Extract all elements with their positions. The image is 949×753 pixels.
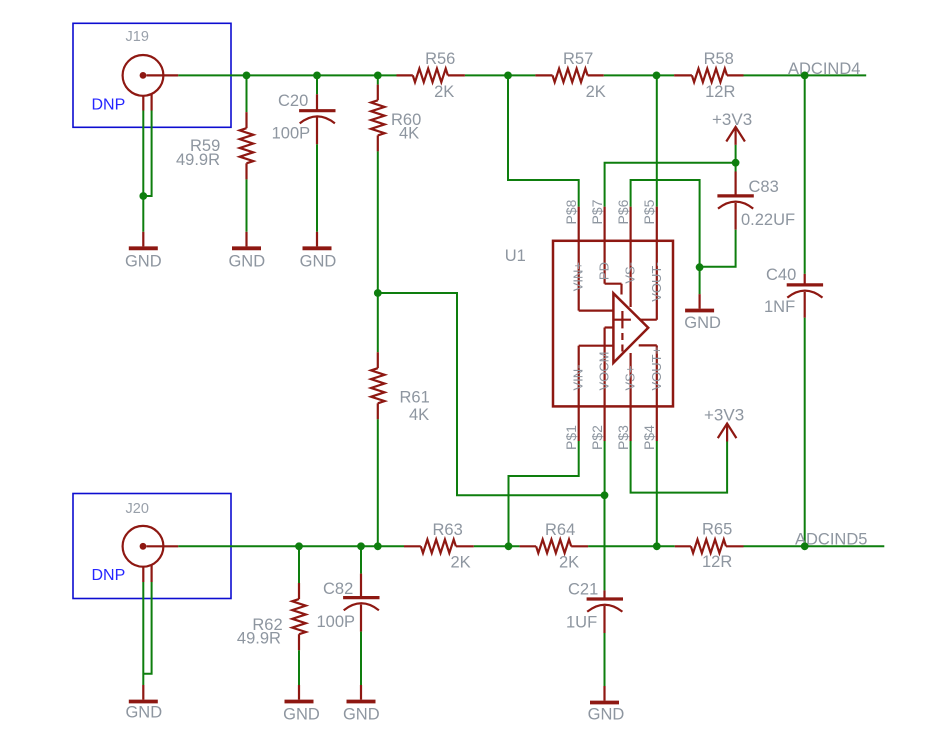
resistor R59: [240, 112, 254, 179]
wire R61 to bottom net: [377, 419, 379, 546]
junction ADCIND4 node: [801, 72, 809, 80]
U1 internal VOUT+ line: [639, 345, 657, 406]
U1 internal VOUT- line: [640, 241, 657, 320]
label R63 value 2K: [451, 554, 471, 572]
pin label P$1: [563, 425, 579, 450]
pin P$8 stub: [578, 207, 580, 241]
wire node R63/R64 to pin P$1: [509, 441, 579, 546]
junction C20 tap: [313, 72, 321, 80]
pin name VIN-: [571, 365, 586, 391]
U1 plus sign: [614, 311, 631, 328]
wire C82 to GND: [360, 632, 362, 685]
wire R60 to divider node: [377, 151, 379, 293]
svg-text:DNP: DNP: [92, 567, 126, 584]
pin P$1 stub: [578, 406, 580, 441]
pin label P$5: [641, 199, 657, 224]
junction divider node: [374, 289, 382, 297]
svg-text:GND: GND: [125, 253, 162, 271]
wire J20 shield to ground: [143, 582, 151, 674]
svg-text:GND: GND: [588, 706, 625, 724]
svg-text:0.22UF: 0.22UF: [741, 211, 795, 229]
label R62 value 49.9R: [237, 630, 281, 648]
svg-text:P$6: P$6: [615, 199, 631, 224]
svg-text:P$2: P$2: [589, 425, 605, 450]
wire top net segment 2: [465, 74, 536, 76]
label net ADCIND4: [788, 60, 860, 78]
svg-text:12R: 12R: [702, 553, 732, 571]
svg-text:1UF: 1UF: [566, 614, 597, 632]
svg-text:GND: GND: [684, 314, 721, 332]
svg-text:49.9R: 49.9R: [237, 630, 281, 648]
wire +3V3 to node: [735, 145, 737, 163]
pin label P$6: [615, 199, 631, 224]
wire R62 top lead: [298, 546, 300, 583]
capacitor C82: [343, 574, 379, 632]
svg-text:R61: R61: [400, 389, 430, 407]
connector J20 BNC symbol: [123, 526, 179, 582]
supply +3V3 (bottom): [704, 406, 744, 442]
junction bottom node A: [505, 542, 513, 550]
svg-text:PD: PD: [597, 262, 612, 280]
pin label P$3: [615, 425, 631, 450]
U1 internal VS+ line: [629, 353, 631, 406]
capacitor C20: [299, 94, 335, 144]
wire R62 to GND: [298, 650, 300, 685]
wire C40 to bottom net: [804, 318, 806, 547]
label C20 name: [278, 92, 308, 110]
svg-text:VIN-: VIN-: [571, 365, 586, 391]
svg-text:49.9R: 49.9R: [176, 151, 220, 169]
label R65 value 12R: [702, 553, 732, 571]
svg-text:+3V3: +3V3: [704, 406, 744, 425]
pin label P$7: [589, 199, 605, 224]
op-amp U1 body: [553, 241, 673, 407]
wire R59 top lead: [246, 75, 248, 112]
resistor R56: [397, 69, 465, 83]
wire pin P$2 to VOCM node: [604, 441, 606, 495]
pin name VOUT+: [649, 347, 664, 391]
svg-text:GND: GND: [300, 253, 337, 271]
connector J20 DNP label: [92, 567, 126, 584]
svg-text:GND: GND: [283, 706, 320, 724]
pin P$5 stub: [656, 207, 658, 241]
svg-text:100P: 100P: [317, 613, 356, 631]
svg-text:R57: R57: [563, 50, 593, 68]
wire J19 node to GND: [142, 196, 144, 232]
connector J19 DNP label: [92, 97, 126, 114]
U1 internal VIN- line: [579, 346, 614, 407]
resistor R63: [404, 540, 474, 554]
ground GND (C20): [300, 232, 337, 271]
svg-text:C20: C20: [278, 92, 308, 110]
connector J19 frame: [73, 23, 231, 127]
resistor R65: [675, 540, 744, 554]
pin label P$2: [589, 425, 605, 450]
U1 amplifier triangle: [613, 293, 648, 363]
wire divider to VOCM node: [378, 293, 605, 495]
wire J20 pin down: [142, 582, 144, 685]
svg-text:P$5: P$5: [641, 199, 657, 224]
wire C83 to ground node: [700, 230, 736, 267]
wire bottom net segment 4: [744, 545, 885, 547]
svg-text:ADCIND4: ADCIND4: [788, 60, 860, 78]
label R57 value 2K: [586, 83, 606, 101]
U1 internal VIN+ line: [579, 241, 614, 311]
svg-text:100P: 100P: [272, 125, 311, 143]
label C83 value 0.22UF: [741, 211, 795, 229]
pin name PD: [597, 262, 612, 280]
pin name VS-: [623, 262, 638, 284]
wire C20 top lead: [316, 75, 318, 94]
label C82 value 100P: [317, 613, 356, 631]
junction J19 ground node: [139, 192, 147, 200]
svg-text:J20: J20: [126, 501, 149, 517]
pin P$3 stub: [629, 406, 631, 441]
svg-text:2K: 2K: [434, 83, 454, 101]
connector J20 name label: [126, 501, 149, 517]
svg-text:P$4: P$4: [641, 425, 657, 450]
wire pin P$6 route: [631, 180, 700, 267]
wire bottom net segment 1: [178, 545, 404, 547]
pin P$4 stub: [656, 406, 658, 441]
label C20 value 100P: [272, 125, 311, 143]
svg-text:GND: GND: [125, 704, 162, 722]
label R56 value 2K: [434, 83, 454, 101]
svg-text:2K: 2K: [559, 554, 579, 572]
resistor R60: [371, 85, 385, 152]
pin name VS+: [623, 366, 638, 391]
label net ADCIND5: [795, 531, 867, 549]
supply +3V3 (top): [712, 110, 752, 145]
wire bottom net segment 2: [474, 545, 520, 547]
pin P$7 stub: [603, 207, 605, 241]
svg-text:J19: J19: [126, 29, 149, 45]
svg-text:R65: R65: [702, 521, 732, 539]
label R59 value 49.9R: [176, 151, 220, 169]
svg-text:U1: U1: [505, 247, 526, 265]
junction VOCM node: [601, 491, 609, 499]
label R63 name: [433, 521, 463, 539]
svg-text:R56: R56: [425, 50, 455, 68]
label R59 name: [190, 137, 220, 155]
label C40 value 1NF: [764, 298, 795, 316]
svg-text:2K: 2K: [586, 83, 606, 101]
resistor R58: [674, 69, 743, 83]
svg-text:C82: C82: [323, 580, 353, 598]
U1 internal PD line: [605, 241, 622, 295]
label R64 name: [545, 521, 575, 539]
wire bottom net segment 3: [588, 545, 675, 547]
wire C21 to GND: [604, 633, 606, 686]
svg-text:2K: 2K: [451, 554, 471, 572]
svg-text:R64: R64: [545, 521, 575, 539]
svg-text:VOUT-: VOUT-: [649, 262, 664, 302]
resistor R61: [371, 352, 385, 419]
ground GND (C82): [343, 685, 380, 724]
resistor R62: [292, 583, 306, 650]
pin label P$8: [563, 199, 579, 224]
ground GND (U1): [684, 294, 721, 332]
svg-text:GND: GND: [343, 706, 380, 724]
ground GND (J19): [125, 232, 162, 271]
label R61 name: [400, 389, 430, 407]
junction bottom node B: [653, 542, 661, 550]
label R61 value 4K: [409, 406, 429, 424]
svg-text:12R: 12R: [705, 83, 735, 101]
svg-text:+3V3: +3V3: [712, 110, 752, 129]
resistor R64: [520, 540, 589, 554]
wire +3V3 node to pin P$7: [605, 163, 736, 207]
capacitor C83: [717, 163, 753, 230]
svg-text:R58: R58: [704, 50, 734, 68]
svg-text:R63: R63: [433, 521, 463, 539]
junction R61 bottom tap: [374, 542, 382, 550]
label C21 value 1UF: [566, 614, 597, 632]
label R60 name: [391, 111, 421, 129]
label R65 name: [702, 521, 732, 539]
connector J19 BNC symbol: [123, 55, 179, 111]
junction +3V3 node: [732, 159, 740, 167]
capacitor C40: [787, 274, 823, 318]
wire J19 pin down: [142, 111, 144, 197]
label C83 name: [749, 178, 779, 196]
label R58 value 12R: [705, 83, 735, 101]
ground GND (R59): [228, 232, 265, 271]
svg-text:DNP: DNP: [92, 97, 126, 114]
wire pin P$3 to +3V3: [631, 441, 728, 493]
wire R60 top lead: [377, 75, 379, 84]
svg-text:4K: 4K: [409, 406, 429, 424]
pin name VIN+: [571, 262, 586, 291]
svg-text:P$7: P$7: [589, 199, 605, 224]
wire node A to pin P$8: [508, 75, 579, 206]
label R64 value 2K: [559, 554, 579, 572]
ground GND (C21): [588, 686, 625, 724]
svg-text:C40: C40: [766, 266, 796, 284]
wire top net segment 3: [604, 74, 674, 76]
connector J19 name label: [126, 29, 149, 45]
label U1 name: [505, 247, 526, 265]
ground GND (R62): [283, 685, 320, 724]
svg-text:VS-: VS-: [623, 262, 638, 284]
label R60 value 4K: [399, 125, 419, 143]
pin name VOCM: [597, 352, 612, 391]
junction U1 ground node: [696, 263, 704, 271]
wire ground node down: [699, 267, 701, 294]
wire J19 shield to ground: [143, 111, 151, 197]
junction ADCIND5 node: [801, 542, 809, 550]
wire C82 top lead: [360, 546, 362, 573]
ground GND (J20): [125, 685, 162, 722]
svg-text:C83: C83: [749, 178, 779, 196]
junction top node A: [504, 72, 512, 80]
wire VOCM node to C21: [604, 495, 606, 590]
pin name VOUT-: [649, 262, 664, 302]
label R62 name: [252, 616, 282, 634]
svg-text:VOCM: VOCM: [597, 352, 612, 391]
U1 internal VOCM line: [605, 328, 614, 407]
wire pin P$4 to bottom net: [656, 441, 658, 546]
svg-text:P$1: P$1: [563, 425, 579, 450]
junction C82 tap: [357, 542, 365, 550]
wire top net segment 4: [744, 74, 867, 76]
svg-text:VOUT+: VOUT+: [649, 347, 664, 391]
capacitor C21: [587, 590, 623, 633]
label C40 name: [766, 266, 796, 284]
svg-text:P$8: P$8: [563, 199, 579, 224]
svg-text:VIN+: VIN+: [571, 262, 586, 291]
wire divider node to R61: [377, 293, 379, 352]
pin P$2 stub: [603, 406, 605, 441]
label C21 name: [568, 581, 598, 599]
wire node B to pin P$5: [656, 75, 658, 206]
junction R60 tap: [374, 72, 382, 80]
wire C20 to GND: [316, 144, 318, 232]
pin label P$4: [641, 425, 657, 450]
pin P$6 stub: [629, 207, 631, 241]
svg-text:C21: C21: [568, 581, 598, 599]
resistor R57: [535, 69, 603, 83]
svg-text:1NF: 1NF: [764, 298, 795, 316]
junction R59 tap: [243, 72, 251, 80]
svg-text:GND: GND: [228, 253, 265, 271]
wire top net segment 1: [178, 74, 396, 76]
U1 internal VS- line: [629, 241, 631, 307]
label R58 name: [704, 50, 734, 68]
label R57 name: [563, 50, 593, 68]
U1 dashed line: [621, 333, 623, 352]
label R56 name: [425, 50, 455, 68]
svg-text:VS+: VS+: [623, 366, 638, 391]
junction R62 tap: [295, 542, 303, 550]
wire ADCIND4 to C40: [804, 75, 806, 274]
label C82 name: [323, 580, 353, 598]
svg-text:P$3: P$3: [615, 425, 631, 450]
svg-text:4K: 4K: [399, 125, 419, 143]
junction top node B: [653, 72, 661, 80]
connector J20 frame: [73, 494, 231, 599]
wire R59 to GND: [246, 179, 248, 231]
